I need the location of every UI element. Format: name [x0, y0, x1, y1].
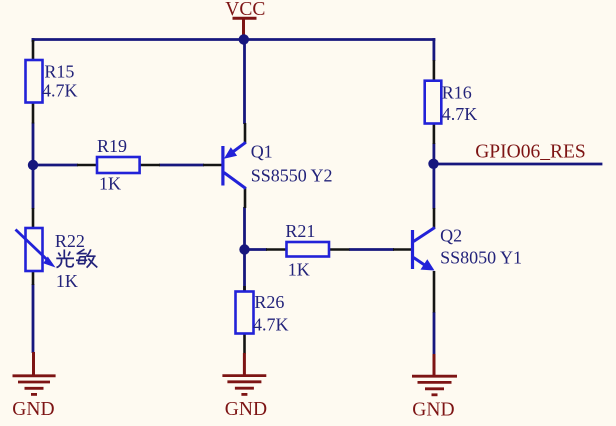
- resistor R15: [26, 60, 43, 103]
- svg-text:R26: R26: [254, 292, 284, 312]
- pin R19.2: [140, 164, 160, 167]
- ground GND left: [32, 352, 35, 375]
- svg-text:4.7K: 4.7K: [442, 104, 478, 124]
- svg-text:GPIO06_RES: GPIO06_RES: [475, 142, 586, 163]
- transistor Q1 PNP: [221, 146, 224, 186]
- wire node to R26: [243, 250, 246, 292]
- ground GND right: [433, 354, 436, 376]
- wire node to R21: [245, 248, 268, 251]
- svg-text:GND: GND: [12, 399, 54, 420]
- svg-text:Q2: Q2: [440, 226, 462, 246]
- svg-text:Q1: Q1: [251, 142, 273, 162]
- wire left column lower: [32, 284, 35, 353]
- wire R16 bottom to node: [432, 143, 435, 165]
- svg-text:R16: R16: [442, 82, 472, 102]
- wire left column corner stub: [32, 38, 35, 42]
- pin R19.1: [77, 164, 97, 167]
- node junction left: [28, 160, 38, 170]
- wire top rail VCC: [32, 38, 436, 41]
- svg-text:1K: 1K: [288, 260, 310, 280]
- svg-text:SS8550 Y2: SS8550 Y2: [251, 165, 333, 185]
- pin R26.2: [243, 334, 246, 354]
- wire Q1 emitter to rail: [243, 38, 246, 124]
- pin R22.1: [32, 208, 35, 228]
- resistor R21: [287, 242, 330, 257]
- svg-text:R15: R15: [44, 62, 74, 82]
- node junction VCC rail: [239, 34, 249, 44]
- svg-text:R21: R21: [285, 221, 315, 241]
- label 光敏 (photo-sensitive) drawn glyphs: [56, 249, 97, 267]
- pin Q1 base: [203, 164, 223, 167]
- svg-text:1K: 1K: [99, 174, 121, 194]
- wire R21 right to Q2 base: [349, 248, 394, 251]
- wire R19 left: [33, 164, 78, 167]
- wire Q1 collector to node: [243, 207, 246, 251]
- wire left column mid: [32, 123, 35, 210]
- pin R15.1: [32, 40, 35, 60]
- svg-text:4.7K: 4.7K: [42, 81, 78, 101]
- node junction collector/R21/R26: [239, 244, 249, 254]
- pin Q2 collector: [433, 208, 436, 229]
- svg-text:R19: R19: [97, 136, 127, 156]
- resistor R26: [236, 292, 254, 334]
- svg-text:VCC: VCC: [225, 0, 265, 20]
- resistor R16: [425, 81, 442, 124]
- power port VCC: [242, 19, 245, 36]
- node junction GPIO06_RES: [428, 159, 438, 169]
- svg-text:GND: GND: [225, 399, 267, 420]
- svg-text:R22: R22: [55, 231, 85, 251]
- photoresistor R22: [26, 228, 43, 271]
- pin R21.1: [266, 248, 287, 251]
- pin Q1 emitter: [244, 123, 247, 144]
- svg-text:GND: GND: [412, 399, 454, 420]
- pin R26.1: [243, 286, 246, 292]
- pin Q1 collector: [244, 188, 247, 209]
- wire right column upper: [432, 38, 435, 61]
- pin R15.2: [32, 103, 35, 124]
- wire Q2 emitter to GND: [433, 312, 436, 355]
- ground GND middle: [243, 353, 246, 375]
- pin R21.2: [329, 248, 350, 251]
- wire GPIO06_RES: [433, 163, 602, 166]
- svg-text:SS8050 Y1: SS8050 Y1: [440, 248, 522, 268]
- pin R16.1: [433, 60, 436, 81]
- transistor Q2 NPN: [411, 230, 414, 269]
- pin R22.2: [32, 271, 35, 285]
- pin Q2 emitter: [433, 271, 436, 313]
- pin R16.2: [433, 124, 436, 145]
- wire node to Q2 collector: [432, 163, 435, 209]
- wire R19 right to Q1 base: [159, 164, 204, 167]
- pin Q2 base: [393, 248, 413, 251]
- resistor R19: [97, 157, 140, 173]
- svg-text:4.7K: 4.7K: [253, 315, 289, 335]
- svg-text:1K: 1K: [56, 271, 78, 291]
